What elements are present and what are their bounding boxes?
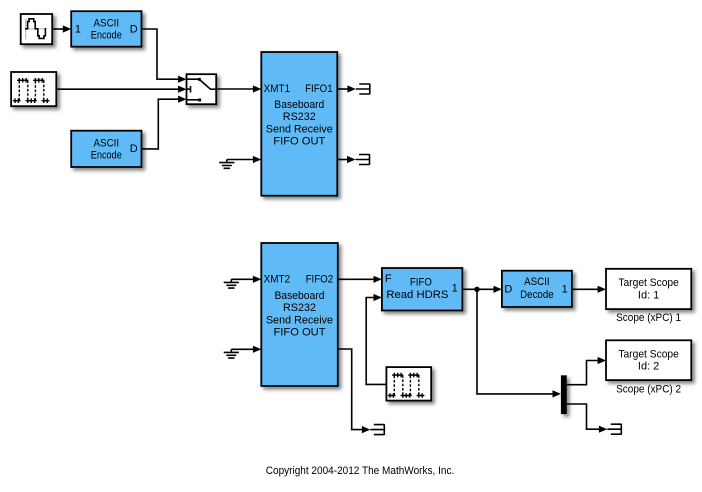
svg-text:Id: 2: Id: 2 <box>638 361 659 373</box>
svg-text:Target Scope: Target Scope <box>618 348 679 360</box>
svg-text:FIFO2: FIFO2 <box>306 274 334 286</box>
svg-text:1: 1 <box>75 23 81 35</box>
svg-text:ASCII: ASCII <box>94 138 120 150</box>
svg-text:FIFO1: FIFO1 <box>305 83 333 95</box>
svg-text:1: 1 <box>562 283 568 295</box>
svg-text:ASCII: ASCII <box>94 18 120 30</box>
svg-text:Read HDRS: Read HDRS <box>386 289 448 301</box>
svg-text:XMT1: XMT1 <box>264 83 291 95</box>
svg-text:ASCII: ASCII <box>524 276 550 288</box>
svg-text:F: F <box>385 273 392 285</box>
svg-text:Baseboard: Baseboard <box>274 99 324 111</box>
svg-text:FIFO OUT: FIFO OUT <box>274 327 326 339</box>
svg-text:Encode: Encode <box>91 150 122 162</box>
svg-text:Send Receive: Send Receive <box>266 314 333 326</box>
svg-text:Encode: Encode <box>91 30 122 42</box>
svg-text:Send Receive: Send Receive <box>266 123 333 135</box>
svg-text:Decode: Decode <box>520 289 554 301</box>
svg-text:D: D <box>130 143 138 155</box>
svg-text:XMT2: XMT2 <box>264 274 291 286</box>
svg-text:Target Scope: Target Scope <box>618 277 679 289</box>
svg-text:FIFO: FIFO <box>410 276 432 288</box>
svg-text:RS232: RS232 <box>283 302 316 314</box>
svg-text:Scope (xPC) 1: Scope (xPC) 1 <box>616 312 681 324</box>
svg-text:Copyright 2004-2012 The MathWo: Copyright 2004-2012 The MathWorks, Inc. <box>266 465 455 477</box>
svg-text:Id: 1: Id: 1 <box>638 289 659 301</box>
svg-text:1: 1 <box>452 282 458 294</box>
svg-text:Baseboard: Baseboard <box>275 290 325 302</box>
svg-text:Scope (xPC) 2: Scope (xPC) 2 <box>616 383 681 395</box>
svg-text:D: D <box>504 283 512 295</box>
svg-text:RS232: RS232 <box>283 111 316 123</box>
svg-text:D: D <box>130 23 138 35</box>
svg-text:FIFO OUT: FIFO OUT <box>273 136 325 148</box>
